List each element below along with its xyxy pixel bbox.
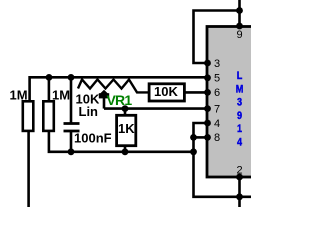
pin dot 2: [236, 174, 243, 181]
wire resistor R1 tail to bottom edge: [27, 131, 30, 208]
node junction dot 1K on wiper bus: [122, 105, 129, 112]
node junction dot 0V bus tee: [190, 148, 197, 155]
svg-text:L: L: [237, 70, 243, 82]
svg-text:100nF: 100nF: [74, 131, 112, 146]
svg-text:3: 3: [214, 58, 220, 70]
svg-text:5: 5: [214, 73, 220, 85]
wire stub to resistor R1: [28, 76, 31, 103]
wire pins 4+8 bus: [194, 123, 252, 197]
wire 1K top stub: [124, 109, 127, 116]
wire 10K right lead to pin 6: [184, 91, 207, 94]
pin dot 8: [204, 134, 211, 141]
svg-text:1K: 1K: [118, 121, 135, 136]
wire top bus to pin 5: [29, 76, 207, 79]
svg-text:1: 1: [237, 123, 242, 135]
wire resistor R2 tail to 0V bus: [49, 131, 194, 152]
svg-text:9: 9: [237, 29, 243, 41]
wire capacitor top lead: [70, 77, 73, 123]
resistor 1M (second): [43, 101, 54, 131]
svg-text:4: 4: [237, 137, 242, 149]
node junction dot on top bus for C1: [68, 74, 75, 81]
svg-text:2: 2: [237, 165, 243, 177]
wire wiper bus to pin 7: [104, 107, 207, 110]
IC LM3914 body: [207, 27, 257, 178]
node junction dot capacitor on 0V bus: [68, 148, 75, 155]
wire 1K bottom stub: [124, 145, 127, 152]
svg-text:7: 7: [214, 103, 220, 115]
potentiometer VR1 track zigzag: [78, 80, 149, 93]
wire stub to resistor R2: [48, 77, 51, 103]
node junction dot on pin 9 wire: [236, 7, 243, 14]
pin dot 3: [204, 60, 211, 67]
svg-text:8: 8: [214, 132, 220, 144]
svg-text:1M: 1M: [52, 88, 70, 103]
node junction dot pin2 cross: [236, 193, 243, 200]
svg-text:3: 3: [237, 97, 242, 109]
svg-text:9: 9: [237, 110, 242, 122]
resistor 1M (left): [23, 101, 34, 131]
svg-text:10K: 10K: [154, 84, 178, 99]
node junction dot pin8 tee: [190, 134, 197, 141]
node junction dot on top bus for R2: [46, 74, 53, 81]
wire V+ branch to pin 3: [194, 11, 240, 64]
wire pin 8 stub: [194, 136, 208, 139]
resistor 1K: [117, 115, 136, 145]
svg-text:1M: 1M: [10, 88, 28, 103]
pin dot 5: [204, 74, 211, 81]
node junction dot 1K on 0V bus: [122, 148, 129, 155]
pin dot 4: [204, 120, 211, 127]
svg-text:Lin: Lin: [79, 104, 99, 119]
wire capacitor bottom lead: [70, 131, 73, 152]
svg-text:6: 6: [214, 87, 220, 99]
capacitor 100nF plates: [64, 124, 80, 132]
wire pin 2 to bottom edge: [238, 177, 241, 207]
wire pin 9 supply from top edge: [238, 0, 241, 27]
svg-text:M: M: [236, 83, 244, 95]
resistor 10K (horizontal box): [149, 84, 184, 101]
svg-text:VR1: VR1: [107, 92, 133, 108]
pin dot 9: [236, 23, 243, 30]
potentiometer VR1 wiper arrow: [100, 90, 108, 94]
svg-text:4: 4: [214, 118, 220, 130]
pin dot 7: [204, 105, 211, 112]
pin dot 6: [204, 89, 211, 96]
